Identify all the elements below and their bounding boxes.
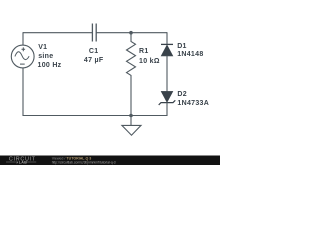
label D1 value bbox=[177, 43, 203, 58]
wire top-right horizontal bbox=[96, 32, 167, 34]
wire left rail bottom bbox=[22, 68, 24, 116]
ground bbox=[122, 116, 141, 136]
resistor R1 bbox=[127, 33, 136, 116]
svg-text:10 kΩ: 10 kΩ bbox=[139, 58, 160, 65]
diode D1 bbox=[161, 44, 173, 56]
label D2 value bbox=[177, 91, 209, 107]
capacitor C1 bbox=[92, 24, 96, 42]
svg-text:1N4733A: 1N4733A bbox=[177, 100, 209, 107]
svg-text:Viewed / TUTORIAL Q 3: Viewed / TUTORIAL Q 3 bbox=[52, 156, 92, 160]
svg-text:sine: sine bbox=[38, 53, 53, 60]
wire right rail bottom bbox=[166, 103, 168, 116]
zener diode D2 bbox=[159, 91, 176, 105]
svg-text:http://circuitlab.com/c/3bjnmr: http://circuitlab.com/c/3bjnmrkmf/tutori… bbox=[52, 161, 116, 165]
label R1 value bbox=[139, 48, 160, 65]
watermark text bbox=[52, 156, 116, 164]
svg-text:D1: D1 bbox=[177, 43, 187, 50]
svg-text:100 Hz: 100 Hz bbox=[38, 62, 62, 69]
svg-text:V1: V1 bbox=[38, 44, 47, 51]
node junction bottom (ground tap) bbox=[129, 114, 133, 118]
watermark logo CircuitLab bbox=[6, 157, 36, 165]
watermark bar bbox=[0, 156, 220, 166]
wire right rail middle bbox=[166, 56, 168, 92]
wire right rail top bbox=[166, 32, 168, 44]
label C1 value bbox=[84, 48, 104, 64]
wire top-left horizontal bbox=[23, 32, 92, 34]
svg-text:LAB: LAB bbox=[19, 161, 27, 165]
svg-text:1N4148: 1N4148 bbox=[177, 51, 203, 58]
svg-text:47 µF: 47 µF bbox=[84, 57, 104, 64]
label V1 value bbox=[38, 44, 62, 69]
svg-text:R1: R1 bbox=[139, 48, 149, 55]
voltage source V1 bbox=[11, 45, 34, 68]
svg-text:C1: C1 bbox=[89, 48, 99, 55]
node junction top (R1 tap) bbox=[129, 31, 133, 35]
wire left rail top bbox=[22, 32, 24, 45]
wire bottom horizontal bbox=[23, 115, 167, 117]
svg-text:D2: D2 bbox=[177, 91, 187, 98]
